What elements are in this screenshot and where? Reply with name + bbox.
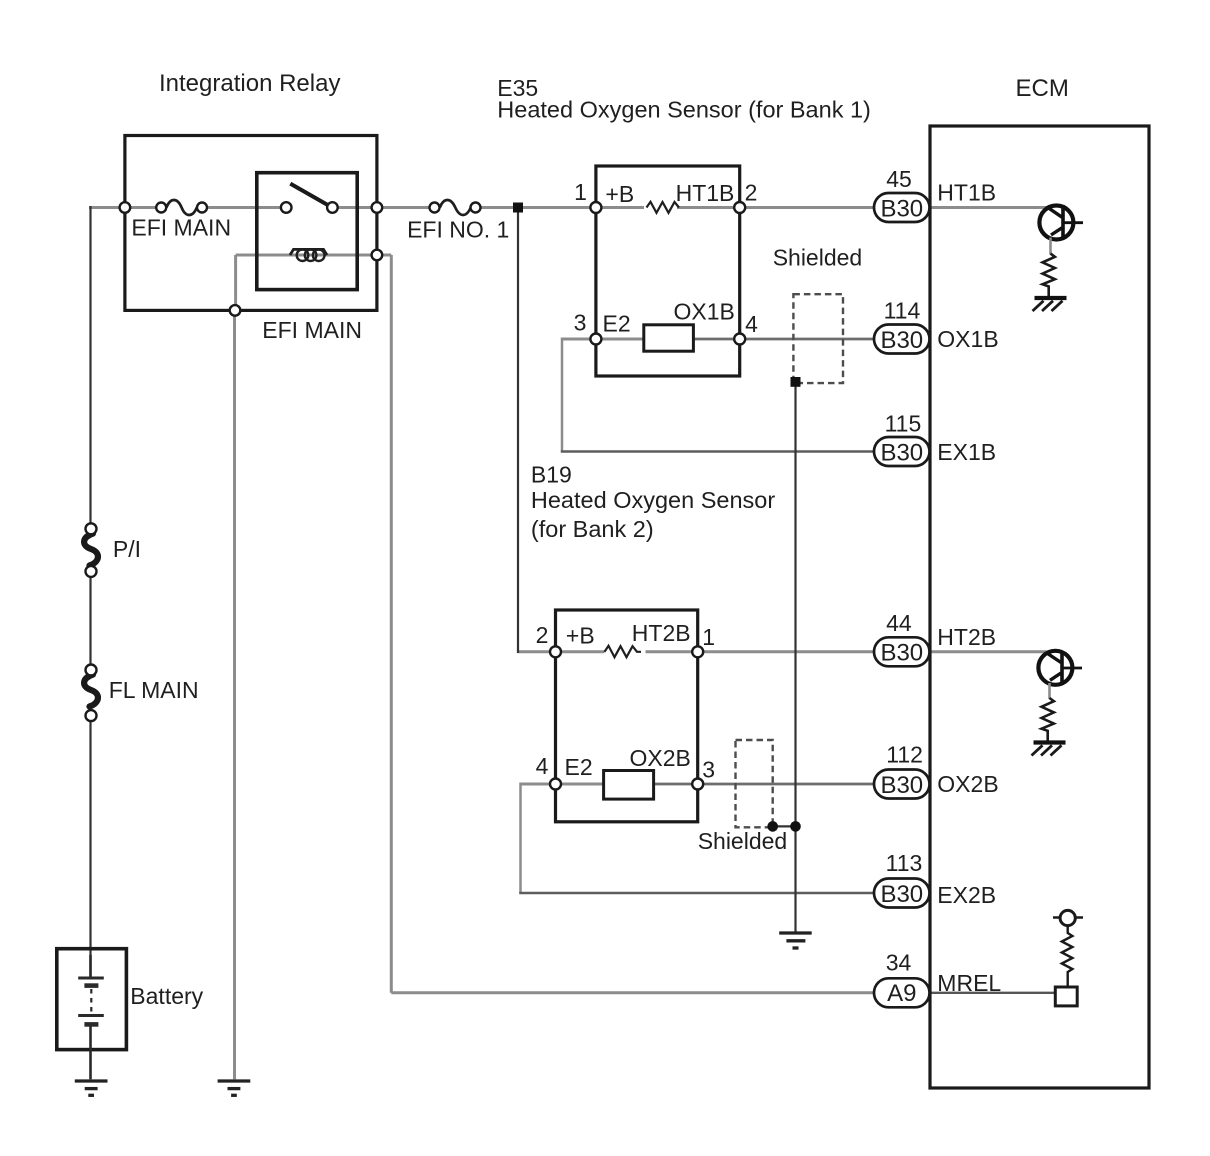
svg-text:OX1B: OX1B	[937, 326, 998, 352]
svg-text:4: 4	[536, 753, 549, 779]
svg-text:Integration Relay: Integration Relay	[159, 70, 340, 97]
svg-text:B30: B30	[880, 439, 923, 466]
svg-text:B30: B30	[880, 195, 923, 222]
svg-text:112: 112	[886, 742, 923, 768]
svg-text:E2: E2	[603, 310, 631, 336]
svg-text:EFI MAIN: EFI MAIN	[262, 317, 362, 343]
svg-text:1: 1	[702, 624, 715, 650]
svg-text:OX2B: OX2B	[937, 771, 998, 797]
svg-text:44: 44	[886, 610, 912, 636]
svg-text:1: 1	[574, 179, 587, 205]
svg-text:EX2B: EX2B	[937, 882, 996, 908]
svg-text:34: 34	[886, 950, 912, 976]
svg-text:2: 2	[745, 180, 758, 206]
svg-text:(for Bank 2): (for Bank 2)	[531, 516, 654, 542]
svg-text:ECM: ECM	[1016, 75, 1069, 102]
svg-text:OX2B: OX2B	[630, 745, 691, 771]
svg-text:+B: +B	[566, 623, 595, 649]
svg-text:115: 115	[885, 411, 922, 437]
svg-text:B30: B30	[880, 640, 923, 667]
svg-text:EFI MAIN: EFI MAIN	[131, 215, 231, 241]
svg-text:MREL: MREL	[937, 970, 1001, 996]
svg-text:E2: E2	[565, 754, 593, 780]
svg-text:45: 45	[886, 166, 912, 192]
svg-text:Heated Oxygen Sensor (for Bank: Heated Oxygen Sensor (for Bank 1)	[497, 97, 871, 123]
svg-text:Heated Oxygen Sensor: Heated Oxygen Sensor	[531, 487, 775, 513]
svg-text:EFI NO. 1: EFI NO. 1	[407, 217, 509, 243]
svg-text:HT1B: HT1B	[676, 180, 735, 206]
svg-text:B30: B30	[880, 327, 923, 354]
svg-text:P/I: P/I	[113, 536, 141, 562]
svg-text:HT1B: HT1B	[937, 180, 996, 206]
svg-text:FL MAIN: FL MAIN	[109, 677, 199, 703]
svg-text:+B: +B	[605, 181, 634, 207]
svg-text:2: 2	[536, 622, 549, 648]
svg-text:3: 3	[702, 757, 715, 783]
svg-text:EX1B: EX1B	[937, 439, 996, 465]
svg-text:114: 114	[884, 297, 921, 323]
svg-text:4: 4	[745, 311, 758, 337]
svg-text:3: 3	[574, 310, 587, 336]
svg-text:B30: B30	[880, 772, 923, 799]
svg-text:113: 113	[886, 850, 923, 876]
svg-text:B30: B30	[880, 881, 923, 908]
svg-text:HT2B: HT2B	[632, 620, 691, 646]
svg-text:Battery: Battery	[130, 983, 203, 1009]
svg-text:OX1B: OX1B	[674, 298, 735, 324]
svg-text:HT2B: HT2B	[937, 624, 996, 650]
svg-text:A9: A9	[887, 980, 916, 1007]
svg-text:B19: B19	[531, 462, 572, 488]
svg-text:Shielded: Shielded	[698, 828, 788, 854]
svg-text:Shielded: Shielded	[773, 244, 863, 270]
